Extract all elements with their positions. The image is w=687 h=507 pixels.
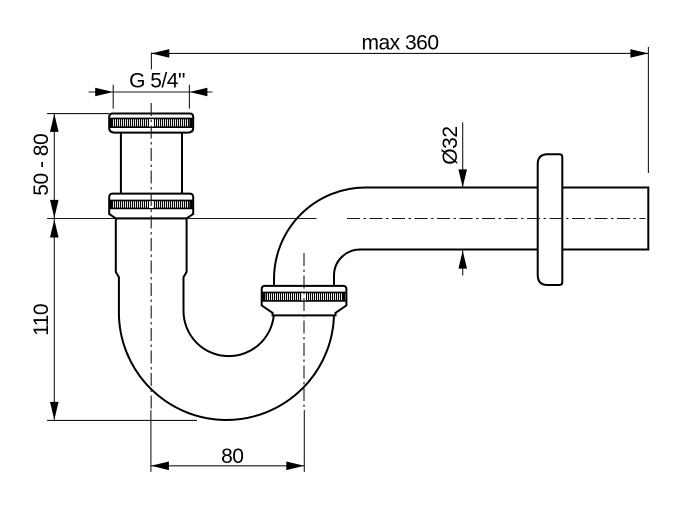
svg-text:110: 110 xyxy=(30,304,53,336)
svg-text:Ø32: Ø32 xyxy=(439,126,462,164)
svg-text:max 360: max 360 xyxy=(361,32,438,55)
svg-text:80: 80 xyxy=(221,445,243,468)
svg-text:50 - 80: 50 - 80 xyxy=(30,134,53,196)
svg-text:G 5/4": G 5/4" xyxy=(129,70,185,93)
